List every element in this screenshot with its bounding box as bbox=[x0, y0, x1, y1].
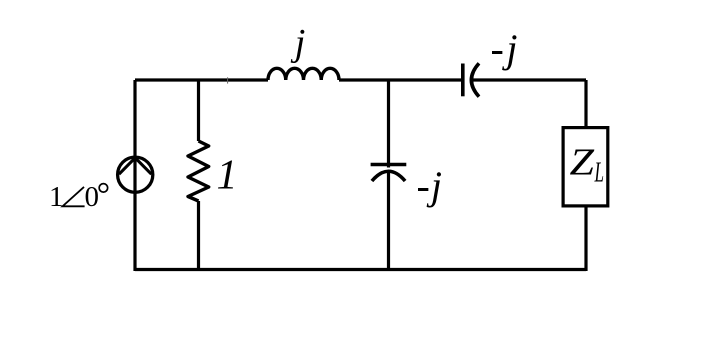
wire right branch bottom bbox=[584, 206, 587, 272]
wire top-right segment bbox=[472, 78, 587, 81]
svg-text:1: 1 bbox=[49, 181, 64, 213]
node tick on top wire bbox=[227, 77, 229, 83]
label ZL (load) bbox=[570, 142, 605, 189]
wire resistor branch bottom bbox=[197, 201, 200, 271]
wire middle branch bottom bbox=[387, 171, 390, 271]
wire left branch bbox=[133, 80, 136, 271]
wire top-left segment bbox=[135, 78, 268, 81]
load ZL (box) bbox=[563, 128, 608, 206]
wire middle branch top bbox=[387, 80, 390, 168]
svg-text:-j: -j bbox=[417, 163, 443, 208]
svg-text:1: 1 bbox=[217, 153, 238, 199]
svg-text:-j: -j bbox=[491, 26, 520, 71]
inductor L1 bbox=[268, 68, 339, 80]
wire top-middle segment bbox=[339, 78, 463, 81]
wire resistor branch top bbox=[197, 80, 200, 141]
current source I1 bbox=[118, 157, 153, 192]
capacitor C2 (series, top right) bbox=[463, 63, 479, 96]
capacitor C1 (shunt) bbox=[371, 165, 407, 182]
resistor R1 bbox=[188, 141, 209, 201]
wire right branch top bbox=[584, 80, 587, 128]
svg-text:Z: Z bbox=[570, 142, 595, 184]
svg-text:L: L bbox=[594, 157, 604, 189]
svg-text:0: 0 bbox=[85, 181, 100, 213]
label 1&#8736;0&#176; (source value) bbox=[49, 181, 108, 213]
wire bottom bbox=[135, 268, 586, 271]
